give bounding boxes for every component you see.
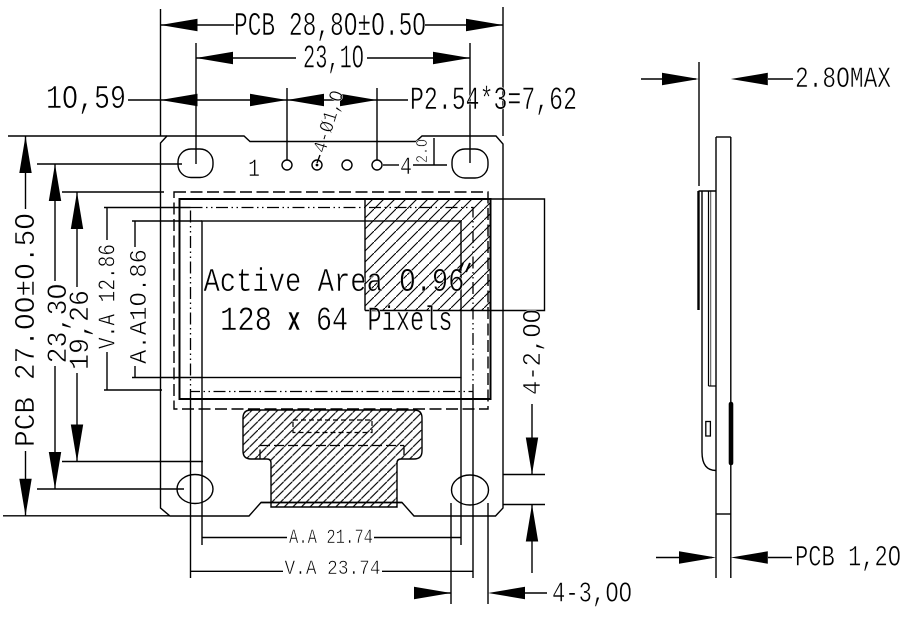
hatched zebra region top-right of display xyxy=(365,199,491,311)
svg-text:23,1O: 23,1O xyxy=(303,41,364,78)
extension PCB bottom to left margin xyxy=(3,515,170,517)
svg-text:128: 128 xyxy=(220,303,272,341)
extension 2.80MAX left xyxy=(698,62,700,186)
svg-text:1: 1 xyxy=(248,155,260,184)
side view FPC stub rect xyxy=(706,422,711,437)
svg-text:Pixels: Pixels xyxy=(368,303,453,341)
svg-text:19,26: 19,26 xyxy=(66,290,97,370)
extension 19,26 top xyxy=(62,191,164,193)
tick A.A top xyxy=(132,220,202,222)
svg-text:PCB 28,8O±O.5O: PCB 28,8O±O.5O xyxy=(234,8,426,45)
dimension PCB 27.00+-0.50 vertical xyxy=(25,136,27,209)
pin 4 hole xyxy=(372,160,382,170)
side view PCB top edge xyxy=(716,136,731,138)
glass outline rectangle xyxy=(180,199,491,399)
extension V.A bottom left xyxy=(190,392,192,578)
hole bottom tangent line right xyxy=(503,504,545,506)
svg-text:4-2,OO: 4-2,OO xyxy=(518,309,548,395)
svg-text:V.A 23.74: V.A 23.74 xyxy=(285,558,381,581)
dimension 4-3,00 xyxy=(424,592,451,594)
dimension A.A 21.74 xyxy=(202,537,287,539)
extension line 23,10 left (top-left hole center) xyxy=(195,43,197,164)
extension A.A bottom right xyxy=(460,378,462,546)
dimension P2.54 pin pitch arrows xyxy=(287,99,377,101)
extension line PCB left top xyxy=(160,9,162,136)
mounting hole top-right xyxy=(452,149,488,178)
leader 4-O1,0 rotated label xyxy=(317,155,320,163)
dimension 10,59 line and arrows xyxy=(128,99,287,101)
extension A.A bottom left xyxy=(201,378,203,546)
PCB bottom edge mid segment xyxy=(261,502,402,504)
side view PCB front face xyxy=(715,137,717,578)
pin row line to label 4 xyxy=(383,164,399,166)
dimension line to P2.54 text xyxy=(377,99,408,101)
dimension 2.0 pin step xyxy=(433,138,435,165)
side view glass inner tick xyxy=(709,385,716,387)
extension hole left tangent xyxy=(450,503,452,604)
mounting hole bottom-right xyxy=(452,475,489,505)
extension V.A bottom right xyxy=(472,392,474,578)
extension 19,26 bottom xyxy=(62,461,203,463)
side view glass front bold face xyxy=(697,191,699,310)
mounting hole bottom-left xyxy=(177,475,213,504)
svg-text:Active Area O.96: Active Area O.96 xyxy=(204,264,465,301)
driver region rectangle extending right xyxy=(365,199,545,311)
active area rectangle A.A xyxy=(202,221,461,378)
dimension PCB 28,80 +-0.50 xyxy=(161,24,235,26)
pin 2 hole with center dot xyxy=(312,160,322,170)
extension line pin4 xyxy=(376,88,378,160)
connector inner step outline hidden line xyxy=(260,446,404,460)
FPC connector hatched tab xyxy=(243,410,422,507)
svg-text:2.O: 2.O xyxy=(414,139,433,163)
extension 23,30 bottom (hole center line) xyxy=(37,488,184,490)
svg-text:2.8OMAX: 2.8OMAX xyxy=(795,63,891,97)
svg-text:A.A1O.86: A.A1O.86 xyxy=(127,249,154,364)
side view glass inner faint line xyxy=(710,191,712,386)
svg-text:A.A 21.74: A.A 21.74 xyxy=(289,527,373,550)
double prime mark after 0.96 xyxy=(459,263,470,272)
hole top tangent line right xyxy=(503,474,545,476)
svg-text:x: x xyxy=(288,303,301,341)
side view glass top edge xyxy=(699,190,716,192)
svg-text:4-3,OO: 4-3,OO xyxy=(552,578,632,611)
svg-text:V.A 12.86: V.A 12.86 xyxy=(96,244,123,349)
extension 23,30 top (hole center line) xyxy=(37,163,182,165)
pin 3 hole xyxy=(342,160,352,170)
dimension V.A 23.74 xyxy=(191,570,284,572)
connector contact window dashed rect xyxy=(293,420,372,433)
dimension V.A 12.86 vertical xyxy=(106,208,108,241)
hatch region left boundary xyxy=(364,199,366,311)
svg-text:P2.54*3=7,62: P2.54*3=7,62 xyxy=(410,82,577,119)
PCB outline (front view) xyxy=(161,136,504,516)
svg-text:64: 64 xyxy=(316,303,348,341)
svg-text:4: 4 xyxy=(400,153,412,182)
dimension 4-2,00 vertical with arrows xyxy=(531,404,533,475)
dimension 2.80MAX xyxy=(641,78,696,80)
dimension 23,10 xyxy=(196,57,296,59)
tick V.A top xyxy=(104,207,191,209)
dimension 19,26 vertical xyxy=(76,192,78,287)
extension line 23,10 right (top-right hole center) xyxy=(469,43,471,163)
dimension 23,30 vertical xyxy=(54,164,56,281)
dashed panel outline rectangle xyxy=(174,192,488,409)
extension hole right tangent xyxy=(487,503,489,604)
side view glass inner line xyxy=(708,191,710,386)
side view PCB back face xyxy=(730,137,732,578)
svg-text:PCB 1,2O: PCB 1,2O xyxy=(795,542,901,576)
dimension PCB 1,20 xyxy=(656,557,712,559)
svg-text:1O,59: 1O,59 xyxy=(46,81,126,118)
extension line PCB right top xyxy=(502,7,504,136)
tick A.A bottom xyxy=(132,377,202,379)
extension PCB top to left margin xyxy=(8,135,167,137)
side view PCB bottom edge tick xyxy=(716,513,731,515)
viewing area dash-dot rectangle V.A xyxy=(191,208,474,392)
svg-text:PCB 27.OO±O.5O: PCB 27.OO±O.5O xyxy=(10,213,43,447)
extension line pin1 xyxy=(286,88,288,160)
side view connector thick bar on back xyxy=(729,404,734,463)
pin 1 hole xyxy=(282,160,292,170)
side view glass body line xyxy=(702,191,716,471)
dimension A.A 10.86 text inline xyxy=(134,221,136,247)
tick V.A bottom xyxy=(104,389,162,391)
mounting hole top-left xyxy=(178,149,213,178)
